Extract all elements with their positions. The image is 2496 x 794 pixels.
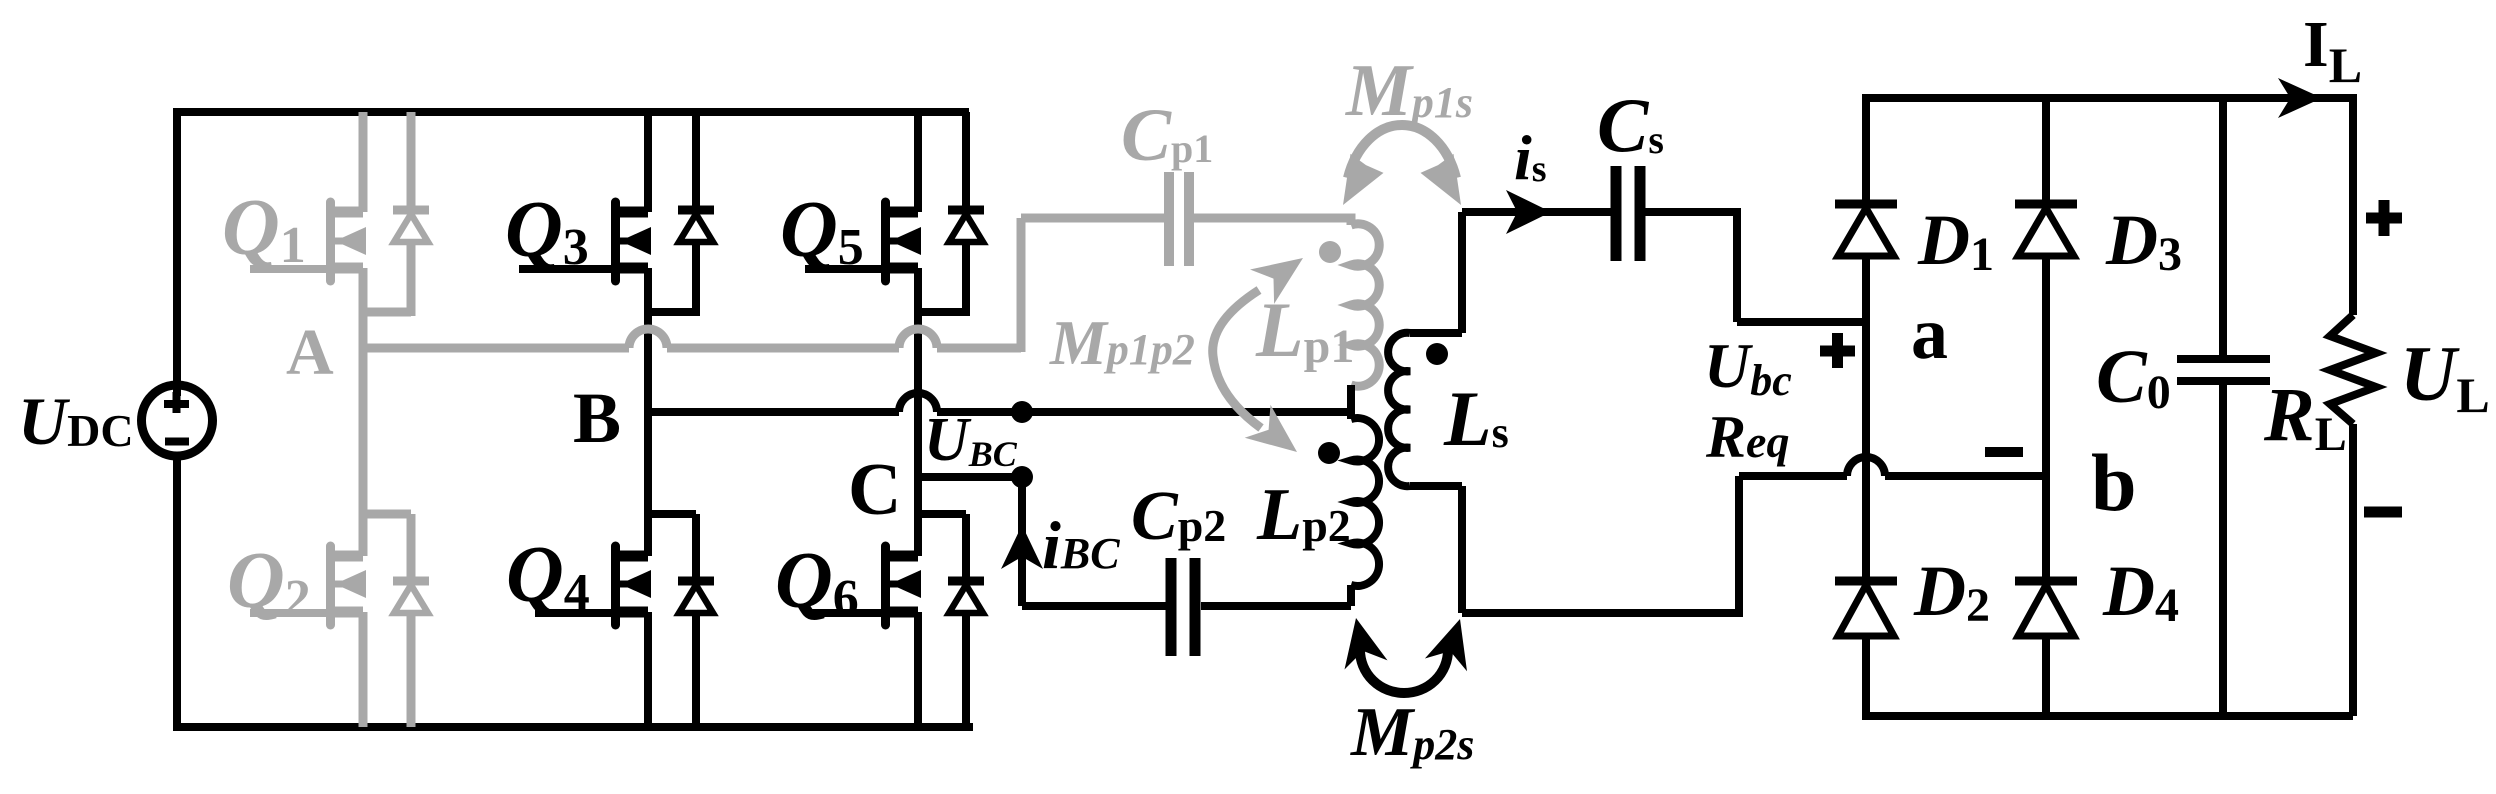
diode D2	[1835, 551, 1990, 636]
mutual inductance M_p1s	[1348, 125, 1456, 178]
svg-text:D4: D4	[2102, 551, 2179, 632]
svg-text:UBC: UBC	[924, 406, 1018, 474]
capacitor Cp2	[1166, 558, 1177, 656]
diode D3 branch	[2015, 94, 2182, 720]
capacitor Cp1	[1164, 172, 1174, 266]
plus sign at load	[2366, 213, 2402, 224]
svg-text:Req: Req	[1705, 404, 1789, 470]
wire top bus	[173, 108, 969, 116]
svg-text:Q2: Q2	[227, 537, 311, 627]
svg-text:C0: C0	[2096, 335, 2171, 419]
svg-text:Cp2: Cp2	[1131, 478, 1226, 555]
current arrow i_s	[1506, 190, 1551, 234]
wire Cp1 to Lp1	[1194, 218, 1351, 225]
polarity dot of Ls	[1426, 343, 1448, 365]
svg-text:D1: D1	[1917, 200, 1994, 281]
diode D4	[2015, 551, 2179, 636]
wire rectifier top bus	[1866, 94, 2353, 102]
svg-text:Q5: Q5	[780, 186, 864, 276]
body diode of Q2	[363, 514, 429, 727]
svg-text:Q6: Q6	[775, 537, 859, 627]
svg-text:D3: D3	[2105, 200, 2182, 281]
svg-text:UDC: UDC	[18, 383, 134, 459]
svg-text:C: C	[848, 449, 901, 531]
svg-text:RL: RL	[2263, 373, 2347, 461]
body diode of Q1	[363, 112, 429, 316]
wire Lp1 bottom stub	[1347, 385, 1355, 416]
svg-text:Mp1s: Mp1s	[1345, 50, 1473, 132]
svg-text:UL: UL	[2400, 330, 2490, 423]
body diode of Q3	[648, 112, 714, 316]
transistor Q6	[775, 477, 921, 727]
transistor Q4	[506, 412, 651, 727]
current arrow i_BC	[1001, 525, 1043, 569]
diode D1 branch	[1835, 94, 1994, 720]
wire node B to Lp1/Lp2 junction (with crossover)	[648, 408, 1351, 416]
wire bottom bus	[173, 723, 973, 731]
wire Cs to node a	[1645, 212, 1866, 322]
transistor Q3	[505, 112, 651, 412]
wire secondary bottom loop	[1462, 476, 1739, 613]
svg-text:iBC: iBC	[1042, 507, 1120, 583]
svg-text:Q4: Q4	[506, 531, 590, 621]
svg-text:a: a	[1911, 293, 1948, 375]
svg-text:Ls: Ls	[1443, 375, 1509, 462]
inductor Lp1	[1351, 224, 1379, 386]
node dot U_BC plus terminal	[1011, 401, 1033, 423]
wire Cp2 to i_BC branch	[1022, 477, 1166, 606]
body diode of Q6	[918, 514, 984, 727]
mutual inductance M_p1p2	[1213, 290, 1261, 428]
wire Lp2 bottom to Cp2	[1201, 602, 1351, 610]
svg-text:Mp1p2: Mp1p2	[1049, 307, 1195, 378]
transistor Q2	[227, 348, 366, 727]
svg-text:B: B	[573, 378, 621, 458]
node dot U_BC minus terminal	[1011, 466, 1033, 488]
transistor Q1	[222, 112, 366, 348]
wire rectifier bottom bus	[1866, 712, 2353, 720]
transistor Q5	[780, 112, 921, 477]
body diode of Q5	[918, 112, 984, 316]
svg-text:Mp2s: Mp2s	[1350, 694, 1474, 771]
current arrow I_L	[2278, 78, 2322, 118]
capacitor Cs	[1611, 166, 1622, 261]
svg-text:A: A	[286, 316, 334, 389]
wire node C to U_BC minus terminal	[918, 473, 1022, 481]
wire to node b (with crossover)	[1739, 472, 2046, 480]
minus sign at node b	[1985, 447, 2023, 457]
plus sign at node a	[1820, 346, 1855, 357]
inductor Lp2	[1347, 412, 1355, 419]
body diode of Q4	[648, 514, 714, 727]
capacitor C0 branch	[2219, 94, 2227, 720]
svg-text:is: is	[1514, 122, 1547, 193]
svg-text:b: b	[2091, 437, 2137, 528]
polarity dot of Lp1	[1319, 241, 1341, 263]
minus sign at load	[2364, 507, 2402, 518]
power supply U_DC	[142, 385, 213, 456]
wire node A to Cp1 (with crossovers)	[363, 344, 1021, 353]
svg-text:IL: IL	[2303, 8, 2362, 93]
svg-text:Cs: Cs	[1597, 82, 1664, 168]
polarity dot of Lp2	[1318, 442, 1340, 464]
svg-text:Q1: Q1	[222, 184, 306, 274]
wire Ls top to Cs	[1462, 208, 1611, 216]
svg-text:D2: D2	[1913, 551, 1990, 632]
inductor Ls	[1410, 212, 1462, 333]
svg-text:Lp2: Lp2	[1256, 474, 1351, 556]
svg-text:Ubc: Ubc	[1704, 330, 1792, 405]
wire left rail	[173, 112, 181, 727]
mutual inductance M_p2s	[1360, 650, 1448, 693]
svg-text:Lp1: Lp1	[1255, 286, 1354, 373]
svg-text:Cp1: Cp1	[1121, 94, 1213, 177]
svg-text:Q3: Q3	[505, 186, 589, 276]
load branch with resistor RL	[2349, 94, 2357, 315]
